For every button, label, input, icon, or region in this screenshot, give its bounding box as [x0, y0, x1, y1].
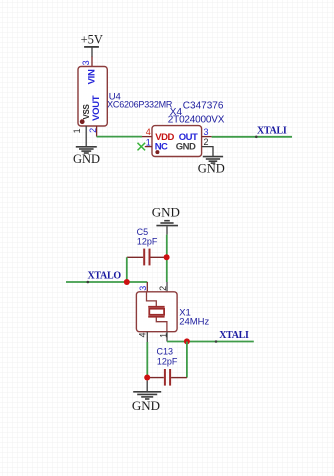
- C5 value label 12pF: [137, 237, 158, 247]
- U4 pin 1 number: [72, 128, 82, 133]
- X1 pin 3 stub: [146, 282, 148, 292]
- svg-text:1: 1: [159, 333, 169, 338]
- power +5V label: [81, 33, 103, 47]
- capacitor C5: [127, 249, 167, 266]
- svg-text:2T024000VX: 2T024000VX: [168, 114, 225, 125]
- X1 pin 4 stub: [146, 332, 148, 342]
- wire X1 pin4 down to C13: [146, 342, 148, 378]
- svg-text:3: 3: [203, 127, 208, 137]
- X1 pin 3 number: [138, 286, 148, 291]
- svg-text:C13: C13: [157, 347, 174, 357]
- X1 designator label: [179, 307, 191, 318]
- svg-text:3: 3: [138, 286, 148, 291]
- wire C13 branch (vertical right): [186, 342, 188, 378]
- X4 value label 2T024000VX: [168, 114, 225, 125]
- U4 designator label: [109, 92, 121, 103]
- svg-text:XTALI: XTALI: [257, 126, 287, 137]
- net label XTALO: [88, 270, 122, 281]
- svg-text:XTALI: XTALI: [219, 330, 249, 341]
- U4 pin 2 number: [88, 128, 98, 133]
- X4 pin 2 (GND) stub: [203, 137, 208, 147]
- svg-text:VIN: VIN: [86, 69, 97, 84]
- no-connect X mark on NC pin: [138, 143, 146, 151]
- crystal X1 body: [136, 292, 177, 332]
- X4 pin name OUT: [179, 132, 198, 143]
- C13 value label 12pF: [157, 357, 178, 367]
- X4 pin 3 (OUT) stub: [202, 136, 212, 138]
- svg-text:3: 3: [81, 60, 91, 65]
- U4 value label XC6206P332MR: [107, 100, 173, 110]
- wire XTALI (bottom): [167, 341, 254, 343]
- wire XTALO: [66, 281, 147, 283]
- svg-text:C5: C5: [137, 227, 149, 237]
- X4 value label C347376: [183, 100, 224, 111]
- power +5V stem: [91, 47, 93, 57]
- net label anchor tick (XTALO): [87, 281, 90, 284]
- X4 pin name NC: [155, 142, 168, 153]
- wire C5 branch down to XTALO: [126, 257, 128, 282]
- X4 pin 3 number: [203, 127, 208, 137]
- X1 pin 4 number: [137, 332, 147, 337]
- net label XTALI (top): [257, 126, 287, 137]
- svg-text:4: 4: [146, 127, 151, 137]
- op-amp U4 body (regulator XC6206P332MR): [78, 67, 107, 127]
- X1 value label 24MHz: [179, 316, 209, 327]
- svg-text:GND: GND: [73, 152, 100, 166]
- U4 pin name VIN: [86, 69, 97, 84]
- X4 origin dot: [155, 150, 159, 154]
- svg-text:VSS: VSS: [82, 103, 91, 119]
- X4 pin name GND: [176, 142, 196, 153]
- svg-text:24MHz: 24MHz: [179, 316, 209, 327]
- ground GND top of crystal section (inverted): [152, 205, 180, 235]
- net label XTALI (bottom): [219, 330, 249, 341]
- X1 pin 1 number: [159, 333, 169, 338]
- X1 pin 1 stub: [166, 332, 168, 342]
- svg-text:GND: GND: [132, 398, 160, 413]
- X4 pin 1 (NC) stub: [145, 146, 152, 148]
- X4 pin name VDD: [155, 132, 174, 143]
- C5 designator label: [137, 227, 149, 237]
- svg-text:2: 2: [203, 137, 208, 147]
- U4 pin 3 number: [81, 60, 91, 65]
- wire VOUT to X4 VDD: [97, 136, 142, 138]
- junction dot XTALI/C13: [184, 338, 190, 344]
- ground GND below U4: [73, 147, 100, 166]
- svg-text:2: 2: [158, 286, 168, 291]
- svg-text:GND: GND: [198, 162, 225, 176]
- capacitor C13: [147, 369, 187, 386]
- svg-text:4: 4: [137, 332, 147, 337]
- net label anchor tick (top XTALI): [255, 136, 258, 139]
- wire OUT to XTALI (top): [212, 136, 292, 138]
- X4 pin 4 number: [146, 127, 151, 137]
- X4 pin 2 wire to ground: [202, 147, 213, 156]
- X1 pin 2 number: [158, 286, 168, 291]
- svg-text:VOUT: VOUT: [91, 95, 102, 121]
- svg-text:1: 1: [72, 128, 82, 133]
- X4 pin 1 number: [146, 137, 151, 147]
- junction dot C5/GND: [164, 254, 170, 260]
- X4 designator label: [170, 107, 183, 118]
- junction dot C13/GND: [144, 375, 150, 381]
- U4 pin 1 (VSS) stub + ground stem: [85, 126, 87, 146]
- C13 designator label: [157, 347, 174, 357]
- U4 origin dot: [80, 119, 85, 124]
- X1 pin 2 stub: [166, 282, 168, 292]
- svg-text:GND: GND: [152, 205, 180, 220]
- U4 pin name VOUT: [91, 95, 102, 121]
- ground GND right of X4: [198, 157, 225, 176]
- svg-text:GND: GND: [176, 142, 196, 153]
- power +5V bar symbol: [84, 46, 99, 48]
- crystal X1 internal symbol: [147, 292, 167, 332]
- junction dot XTALO/C5: [124, 279, 130, 285]
- X4 pin 4 stub: [142, 136, 152, 138]
- svg-text:+5V: +5V: [81, 33, 103, 47]
- ground GND bottom: [132, 381, 161, 414]
- oscillator X4 body: [152, 126, 202, 157]
- U4 pin 2 (VOUT) stub: [96, 126, 98, 137]
- wire GND to C5/X1 (vertical): [166, 235, 168, 282]
- U4 pin 3 (VIN) stub: [91, 57, 93, 67]
- net label anchor tick (bottom XTALI): [215, 340, 218, 343]
- svg-text:12pF: 12pF: [137, 237, 158, 247]
- svg-text:12pF: 12pF: [157, 357, 178, 367]
- svg-text:1: 1: [146, 137, 151, 147]
- U4 pin name VSS: [82, 103, 91, 119]
- svg-text:XTALO: XTALO: [88, 270, 122, 281]
- svg-text:C347376: C347376: [183, 100, 224, 111]
- svg-text:XC6206P332MR: XC6206P332MR: [107, 100, 173, 110]
